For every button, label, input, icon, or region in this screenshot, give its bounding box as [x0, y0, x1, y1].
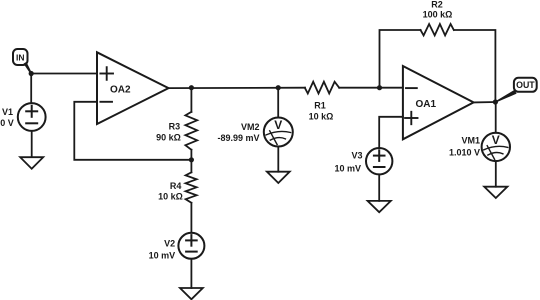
V3 value labels	[334, 151, 362, 174]
svg-text:R3: R3	[169, 122, 181, 132]
node output junction	[493, 99, 498, 104]
svg-text:IN: IN	[16, 53, 25, 63]
svg-text:10 mV: 10 mV	[149, 251, 176, 261]
voltage source V2	[178, 233, 204, 259]
wire VM2 top stub	[277, 88, 279, 118]
wire OA1 + input to V3	[379, 117, 403, 148]
wire R1 to OA1 - input	[339, 87, 403, 89]
node R3 tap	[189, 85, 194, 90]
wire OA1 output	[474, 101, 496, 103]
wire output to VM1	[495, 102, 497, 133]
svg-text:90 kΩ: 90 kΩ	[156, 133, 181, 143]
wire node down to V1	[30, 74, 32, 104]
port label OUT	[514, 78, 537, 92]
wire OA2 feedback (inverting input loop)	[74, 102, 191, 160]
port label IN	[13, 49, 28, 65]
wire R4 to V2	[190, 203, 192, 233]
voltmeter VM2	[264, 118, 293, 147]
svg-text:100 kΩ: 100 kΩ	[423, 10, 453, 20]
R1 value labels	[309, 101, 334, 122]
svg-text:R2: R2	[431, 0, 443, 10]
R2 value labels	[423, 0, 453, 20]
svg-text:R1: R1	[314, 101, 326, 111]
svg-text:R4: R4	[170, 181, 182, 191]
V1 value labels	[0, 107, 14, 128]
svg-text:10 mV: 10 mV	[334, 164, 361, 174]
wire OA2 output	[169, 87, 306, 89]
resistor R3	[185, 112, 197, 150]
wire R3 bottom stub	[190, 150, 192, 160]
svg-text:V3: V3	[351, 151, 362, 161]
resistor R4	[186, 172, 197, 203]
svg-text:10 kΩ: 10 kΩ	[158, 192, 183, 202]
wire OUT leader	[495, 90, 516, 103]
node input junction	[29, 71, 34, 76]
ground (V2)	[180, 288, 203, 299]
svg-text:V: V	[274, 118, 282, 132]
voltmeter VM1	[482, 133, 510, 161]
svg-text:0 V: 0 V	[0, 118, 14, 128]
svg-text:VM2: VM2	[241, 122, 260, 132]
op-amp OA2	[97, 52, 169, 124]
voltage source V3	[366, 148, 392, 174]
svg-text:V1: V1	[2, 107, 13, 117]
ground (V1)	[20, 157, 43, 169]
wire V3 to ground	[378, 174, 380, 201]
node feedback tap	[377, 85, 382, 90]
op-amp OA1	[403, 66, 474, 139]
node VM2 tap	[276, 85, 281, 90]
ground (V3)	[368, 201, 391, 212]
node feedback junction	[189, 157, 194, 162]
wire R2 to output node	[454, 30, 495, 102]
wire IN leader	[24, 62, 32, 74]
svg-text:OUT: OUT	[516, 80, 535, 90]
wire feedback up to R2	[380, 30, 421, 88]
resistor R2	[421, 24, 454, 35]
R4 value labels	[158, 181, 183, 202]
voltage source V1	[18, 103, 46, 131]
wire junction to R4	[190, 160, 192, 173]
V2 value labels	[149, 239, 176, 261]
svg-text:VM1: VM1	[461, 136, 480, 146]
svg-text:V2: V2	[164, 239, 175, 249]
svg-text:-89.99 mV: -89.99 mV	[217, 133, 259, 143]
wire R3 top stub	[190, 88, 192, 112]
wire VM1 to ground	[495, 161, 497, 187]
wire V1 to ground	[31, 131, 33, 157]
svg-text:1.010 V: 1.010 V	[449, 148, 480, 158]
wire node to OA2 + input	[31, 73, 97, 75]
ground (VM1)	[484, 187, 507, 198]
wire VM2 to ground	[277, 147, 279, 172]
svg-text:V: V	[492, 133, 500, 147]
VM2 value labels	[217, 122, 259, 143]
svg-text:OA2: OA2	[110, 85, 131, 96]
svg-text:OA1: OA1	[416, 99, 437, 110]
R3 value labels	[156, 122, 181, 143]
svg-text:10 kΩ: 10 kΩ	[309, 112, 334, 122]
VM1 value labels	[449, 136, 480, 158]
ground (VM2)	[267, 172, 290, 183]
resistor R1	[305, 82, 339, 94]
wire V2 to ground	[190, 259, 192, 288]
